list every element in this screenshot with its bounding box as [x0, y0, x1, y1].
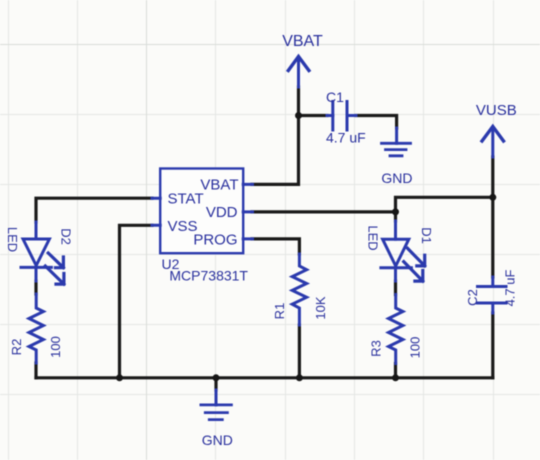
svg-text:PROG: PROG — [193, 232, 237, 249]
svg-text:GND: GND — [202, 432, 233, 448]
svg-text:100: 100 — [48, 336, 63, 358]
svg-text:VBAT: VBAT — [282, 33, 323, 50]
svg-text:100: 100 — [408, 337, 423, 359]
svg-text:LED: LED — [366, 225, 381, 250]
svg-text:VBAT: VBAT — [200, 177, 238, 194]
svg-text:4.7 uF: 4.7 uF — [503, 270, 518, 307]
svg-text:STAT: STAT — [168, 191, 204, 208]
svg-text:C2: C2 — [465, 289, 480, 306]
svg-text:R1: R1 — [272, 303, 287, 320]
svg-text:R2: R2 — [9, 339, 24, 356]
svg-text:C1: C1 — [326, 89, 344, 105]
svg-text:VUSB: VUSB — [476, 102, 517, 119]
svg-text:D1: D1 — [419, 227, 434, 244]
svg-text:D2: D2 — [59, 228, 74, 245]
svg-text:LED: LED — [5, 227, 20, 252]
svg-text:MCP73831T: MCP73831T — [169, 268, 248, 284]
svg-text:4.7 uF: 4.7 uF — [326, 130, 366, 146]
svg-text:VDD: VDD — [206, 204, 238, 221]
svg-text:R3: R3 — [369, 340, 384, 357]
svg-text:10K: 10K — [313, 296, 328, 319]
svg-text:GND: GND — [381, 170, 412, 186]
